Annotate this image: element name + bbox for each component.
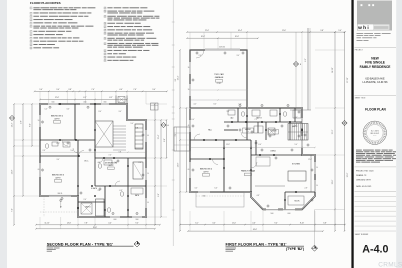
- svg-text:5'-0": 5'-0": [338, 30, 342, 32]
- firm address lines: [357, 33, 391, 41]
- first floor: powder label box: [269, 130, 279, 135]
- first floor: stairs: [288, 124, 308, 141]
- first floor: window size labels: [188, 47, 318, 215]
- first floor: garage internal dim row: [189, 89, 248, 91]
- svg-text:7: 7: [31, 31, 32, 33]
- svg-text:5'-4": 5'-4": [227, 111, 230, 113]
- notes list left column: [30, 7, 95, 50]
- sheet number A-4.0: [362, 244, 388, 256]
- first floor: extra leaders: [227, 125, 309, 151]
- svg-text:FLOOR PLAN NOTES: FLOOR PLAN NOTES: [30, 1, 61, 5]
- svg-text:W.I.C.: W.I.C.: [84, 161, 89, 163]
- first floor: garage door opening: [205, 49, 240, 50]
- second floor: extension lines: [14, 91, 167, 229]
- project name: [360, 57, 391, 69]
- svg-text:11'-4": 11'-4": [158, 134, 160, 139]
- svg-text:DRAWN: TF: DRAWN: TF: [356, 174, 367, 177]
- divider above project: [355, 46, 397, 48]
- svg-text:18: 18: [104, 30, 106, 32]
- svg-text:6'-8": 6'-8": [164, 138, 166, 142]
- svg-text:24'-10": 24'-10": [332, 67, 334, 73]
- svg-text:4'-0": 4'-0": [108, 223, 112, 225]
- svg-text:11'-0": 11'-0": [232, 222, 237, 224]
- svg-text:6'-6": 6'-6": [215, 188, 218, 190]
- svg-text:17: 17: [104, 26, 106, 28]
- svg-text:SECOND FLOOR PLAN - TYPE 'B1': SECOND FLOOR PLAN - TYPE 'B1': [47, 242, 113, 246]
- svg-text:4'-6": 4'-6": [252, 222, 256, 224]
- svg-text:5'-0": 5'-0": [131, 123, 134, 125]
- first floor: door jambs: [203, 113, 302, 201]
- svg-text:15: 15: [104, 16, 106, 18]
- svg-text:5: 5: [31, 23, 32, 25]
- second floor: room labels: [51, 116, 139, 209]
- svg-text:31'-0": 31'-0": [347, 172, 349, 177]
- svg-text:12'-6": 12'-6": [55, 97, 60, 99]
- second floor: scattered dims: [43, 109, 142, 202]
- svg-text:9'-4": 9'-4": [274, 222, 278, 224]
- svg-text:2'-6": 2'-6": [199, 55, 202, 57]
- svg-text:6'-8": 6'-8": [323, 222, 327, 224]
- first floor plan title: [226, 242, 305, 251]
- first floor: left dimension lines: [177, 49, 187, 232]
- svg-text:2: 2: [31, 13, 32, 15]
- svg-text:9'-6": 9'-6": [21, 120, 23, 124]
- svg-text:8'-2": 8'-2": [109, 97, 113, 99]
- svg-text:No. C 31676: No. C 31676: [371, 130, 379, 132]
- first floor: laundry label box: [243, 128, 254, 133]
- svg-text:16070 GD: 16070 GD: [219, 47, 225, 49]
- svg-text:5'-0": 5'-0": [45, 109, 48, 111]
- svg-text:3'-0": 3'-0": [98, 190, 101, 192]
- first floor: top dimension lines: [186, 30, 346, 39]
- svg-text:DINING: DINING: [270, 151, 276, 153]
- first floor: hall wall stubs: [224, 108, 295, 155]
- svg-text:5'-0": 5'-0": [295, 144, 298, 146]
- svg-text:4'-6": 4'-6": [98, 162, 101, 164]
- first floor north arrow: [312, 245, 318, 251]
- second floor: window size labels: [38, 102, 149, 221]
- second floor: interior walls: [40, 104, 146, 217]
- svg-text:27'-10": 27'-10": [347, 77, 349, 83]
- svg-text:4: 4: [31, 19, 32, 21]
- svg-text:CRMLS: CRMLS: [378, 262, 402, 268]
- svg-text:3'-0": 3'-0": [212, 222, 216, 224]
- svg-text:3'-8": 3'-8": [68, 89, 72, 91]
- svg-text:LA PUENTE, CA 91746: LA PUENTE, CA 91746: [363, 81, 389, 84]
- svg-text:13: 13: [104, 8, 106, 10]
- first floor: door arcs: [194, 50, 297, 168]
- svg-text:9'-0": 9'-0": [135, 223, 139, 225]
- svg-text:FLOOR PLAN: FLOOR PLAN: [365, 108, 386, 112]
- svg-text:2'-8": 2'-8": [43, 150, 46, 152]
- right margin strip: [396, 0, 402, 268]
- svg-text:7'-0": 7'-0": [12, 208, 14, 212]
- first floor: callout diamond upper: [293, 61, 301, 66]
- second floor: door jambs: [59, 103, 128, 211]
- svg-text:3'-0": 3'-0": [237, 55, 240, 57]
- floor plan notes heading: [30, 1, 61, 5]
- svg-text:4'-2": 4'-2": [194, 104, 197, 106]
- svg-text:21: 21: [104, 43, 106, 45]
- svg-text:ENTRY: ENTRY: [292, 126, 297, 128]
- first floor: interior walls: [190, 108, 315, 209]
- second floor: internal dim row: [39, 151, 147, 153]
- first floor: extension lines: [180, 32, 345, 245]
- first floor: garage wall refinement: [190, 50, 247, 108]
- first floor: property line: [290, 28, 311, 110]
- svg-text:8: 8: [31, 34, 32, 36]
- svg-text:1: 1: [31, 8, 32, 10]
- svg-text:DATE: 01.05.2021: DATE: 01.05.2021: [356, 185, 371, 188]
- divider below fields: [355, 190, 397, 192]
- svg-text:13'-6": 13'-6": [177, 162, 179, 167]
- svg-text:13'-2": 13'-2": [251, 171, 255, 173]
- svg-text:6'-2": 6'-2": [83, 97, 87, 99]
- first floor: entry porch: [174, 127, 190, 151]
- svg-text:19: 19: [104, 33, 106, 35]
- svg-text:5'-2": 5'-2": [115, 162, 118, 164]
- svg-text:3040: 3040: [104, 102, 107, 104]
- notes list right column: [104, 7, 159, 62]
- svg-text:8'-0": 8'-0": [214, 104, 217, 106]
- second floor: outer walls: [40, 104, 146, 217]
- divider above sheet title: [355, 95, 397, 97]
- second floor: right dimension lines: [154, 103, 167, 226]
- svg-text:CONC.: CONC.: [217, 83, 222, 85]
- first floor: scattered dims: [192, 55, 313, 197]
- svg-text:10'-6": 10'-6": [235, 36, 240, 38]
- svg-text:w h i: w h i: [357, 25, 369, 31]
- project label: [355, 50, 363, 52]
- svg-text:2'-8": 2'-8": [139, 162, 142, 164]
- logo dots: [361, 4, 375, 6]
- svg-text:4040: 4040: [114, 219, 117, 221]
- first floor: internal dim row: [189, 99, 316, 148]
- svg-text:3040: 3040: [203, 195, 206, 197]
- svg-text:6'-8": 6'-8": [120, 190, 123, 192]
- svg-text:24: 24: [104, 57, 106, 59]
- svg-text:FIRST FLOOR PLAN - TYPE 'B1': FIRST FLOOR PLAN - TYPE 'B1': [226, 242, 287, 246]
- svg-text:5'-0": 5'-0": [71, 150, 74, 152]
- svg-text:2'-6": 2'-6": [84, 199, 87, 201]
- svg-text:TWO CAR: TWO CAR: [214, 73, 224, 76]
- svg-text:SHEET TITLE: SHEET TITLE: [355, 98, 367, 100]
- svg-text:PROJECT: PROJECT: [355, 50, 363, 52]
- svg-text:20: 20: [104, 38, 106, 40]
- svg-text:25: 25: [104, 60, 106, 62]
- svg-text:12'-8": 12'-8": [12, 169, 14, 174]
- second floor: left dimension lines: [12, 103, 33, 226]
- svg-text:GARAGE: GARAGE: [215, 76, 224, 79]
- revision table lines: [355, 196, 397, 231]
- svg-text:8'-10": 8'-10": [300, 222, 305, 224]
- first floor: outer walls: [190, 50, 315, 209]
- svg-text:4040: 4040: [288, 213, 291, 215]
- svg-text:11'-10": 11'-10": [44, 223, 50, 225]
- svg-text:6: 6: [31, 26, 32, 28]
- svg-text:9'-2": 9'-2": [305, 58, 307, 62]
- svg-text:8'-0": 8'-0": [30, 123, 32, 127]
- svg-text:9'-0": 9'-0": [56, 89, 60, 91]
- second floor: top dimension lines: [34, 89, 168, 100]
- svg-text:6'-0": 6'-0": [192, 119, 195, 121]
- first floor: callout diamond right: [342, 120, 347, 125]
- svg-text:11'-2": 11'-2": [332, 129, 334, 134]
- svg-text:REN. 06-30-22: REN. 06-30-22: [370, 133, 379, 135]
- svg-text:9'-6": 9'-6": [158, 193, 160, 197]
- svg-text:3'-6": 3'-6": [67, 109, 70, 111]
- svg-text:3: 3: [31, 16, 32, 18]
- svg-text:KITCHEN: KITCHEN: [292, 164, 301, 166]
- first floor: windows: [190, 62, 315, 209]
- second floor plan title: [47, 242, 134, 251]
- svg-text:9'-0": 9'-0": [152, 89, 156, 91]
- sheet title: [365, 108, 386, 112]
- svg-text:7'-0": 7'-0": [91, 89, 95, 91]
- disclaimer fine print: [356, 150, 396, 163]
- svg-text:16'-4": 16'-4": [238, 30, 243, 32]
- sheet title label: [355, 98, 367, 100]
- logo square: [357, 1, 392, 31]
- second floor: chimney extension: [116, 96, 127, 105]
- divider below disclaimer: [355, 166, 397, 168]
- svg-text:NOOK: NOOK: [295, 201, 301, 203]
- svg-text:7'-8": 7'-8": [84, 223, 88, 225]
- svg-text:PROJECT NO: 1620: PROJECT NO: 1620: [356, 171, 373, 173]
- svg-text:7'-0": 7'-0": [109, 155, 112, 157]
- svg-text:BEDROOM 4: BEDROOM 4: [200, 169, 213, 171]
- svg-text:4040: 4040: [84, 102, 87, 104]
- svg-text:22'-6": 22'-6": [332, 179, 334, 184]
- CRMLS watermark: [378, 262, 402, 268]
- first floor: room labels: [200, 73, 301, 203]
- logo wordmark: [357, 24, 389, 31]
- svg-text:23: 23: [104, 54, 106, 56]
- svg-text:5040: 5040: [271, 213, 274, 215]
- svg-text:14'-6": 14'-6": [67, 223, 72, 225]
- second floor: corner schedule tag: [151, 103, 159, 110]
- second floor: leader circles: [41, 106, 144, 215]
- svg-text:BEDROOM 3: BEDROOM 3: [52, 175, 65, 177]
- first floor: right dimension lines: [332, 31, 349, 232]
- second floor: master bath fixtures: [98, 160, 143, 179]
- svg-text:2'-8": 2'-8": [305, 188, 308, 190]
- svg-text:TILE: TILE: [247, 131, 250, 133]
- second floor: door arcs: [62, 140, 120, 186]
- svg-text:11: 11: [30, 44, 32, 46]
- svg-text:35'-0": 35'-0": [93, 227, 98, 229]
- architect seal: [363, 121, 386, 144]
- svg-text:4'-0": 4'-0": [119, 89, 123, 91]
- svg-text:11'-2": 11'-2": [56, 143, 60, 145]
- first floor: kitchen counters and island: [255, 155, 311, 205]
- svg-text:16: 16: [104, 23, 106, 25]
- svg-text:10: 10: [30, 41, 32, 43]
- svg-text:SHEET NUMBER: SHEET NUMBER: [355, 234, 369, 236]
- first floor: leader circles: [192, 52, 313, 207]
- svg-text:BEDROOM 2: BEDROOM 2: [51, 116, 64, 118]
- second floor: stairwell: [95, 121, 126, 150]
- svg-text:8060 SL: 8060 SL: [58, 193, 63, 195]
- second floor: callout diamond left: [9, 115, 14, 120]
- svg-text:9: 9: [31, 38, 32, 40]
- svg-text:7'-2": 7'-2": [255, 119, 258, 121]
- svg-text:CHECKED: WTH: CHECKED: WTH: [356, 179, 371, 181]
- second floor: callout diamond right: [161, 122, 170, 127]
- svg-text:(TYPE 'B2'): (TYPE 'B2'): [286, 247, 304, 251]
- svg-text:10'-6": 10'-6": [201, 36, 206, 38]
- svg-text:21'-0": 21'-0": [205, 30, 210, 32]
- svg-text:6'-4": 6'-4": [259, 144, 262, 146]
- svg-text:8'-4": 8'-4": [99, 111, 102, 113]
- second floor north arrow: [134, 241, 140, 247]
- svg-text:9'-8": 9'-8": [320, 30, 324, 32]
- first floor: rear patio: [196, 192, 244, 207]
- svg-text:3'-0": 3'-0": [119, 111, 122, 113]
- svg-text:13'-2": 13'-2": [12, 122, 14, 127]
- svg-text:22: 22: [104, 50, 106, 52]
- second floor: stair closet shelves: [135, 124, 143, 149]
- svg-text:14: 14: [104, 11, 106, 13]
- first floor: dining table: [256, 157, 270, 166]
- svg-text:19'-4": 19'-4": [177, 75, 179, 80]
- first floor: callout line upper: [296, 32, 302, 110]
- address band: [363, 77, 389, 84]
- svg-text:6'-1": 6'-1": [195, 222, 199, 224]
- svg-text:7'-6": 7'-6": [133, 89, 137, 91]
- svg-text:630 BALBOA AVE: 630 BALBOA AVE: [365, 77, 385, 80]
- svg-text:12: 12: [30, 48, 32, 50]
- second floor: hall bath fixtures: [45, 142, 70, 148]
- svg-text:11'-6": 11'-6": [282, 30, 287, 32]
- second floor: bath 2 fixtures: [81, 188, 143, 216]
- svg-text:43'-6": 43'-6": [253, 229, 258, 231]
- svg-text:10'-8": 10'-8": [226, 144, 230, 146]
- svg-text:5'-4": 5'-4": [39, 89, 43, 91]
- sheet number label: [355, 234, 369, 236]
- svg-text:3'-4": 3'-4": [57, 159, 60, 161]
- first floor: bath laundry fixtures: [228, 110, 301, 135]
- title block left border bar: [351, 0, 353, 268]
- svg-text:A-4.0: A-4.0: [362, 244, 388, 256]
- second floor: windows: [40, 104, 146, 217]
- svg-text:FAMILY RESIDENCE: FAMILY RESIDENCE: [360, 65, 391, 69]
- svg-text:3040: 3040: [136, 219, 139, 221]
- project fields: [356, 171, 373, 188]
- second floor: deck leader: [40, 196, 78, 217]
- svg-text:3'-0": 3'-0": [195, 188, 198, 190]
- svg-text:5040: 5040: [52, 102, 55, 104]
- svg-text:12'-4": 12'-4": [308, 159, 312, 161]
- svg-text:4'-8": 4'-8": [257, 195, 260, 197]
- second floor: bottom dimension lines: [35, 223, 161, 230]
- first floor: bottom dimension lines: [179, 222, 346, 232]
- match line between plans: [172, 0, 177, 246]
- svg-text:B: B: [300, 64, 301, 66]
